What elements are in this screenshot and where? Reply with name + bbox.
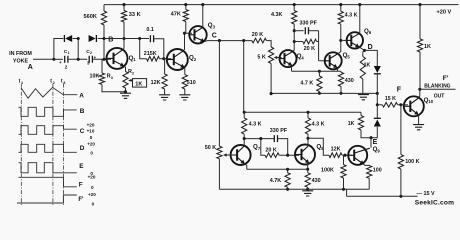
label 20K third <box>265 147 276 153</box>
wire 4.7K1 bottom <box>318 92 320 94</box>
svg-text:12K: 12K <box>151 80 161 86</box>
svg-text:+20: +20 <box>87 142 95 147</box>
resistor 5K pot <box>269 47 274 64</box>
junction right rail <box>418 3 421 6</box>
junction diode mid-tap <box>77 37 80 40</box>
wire branch down to lower stage <box>243 41 245 113</box>
resistor 20K second <box>303 39 317 44</box>
wire cap line to Q1 base <box>93 58 112 60</box>
junction RC2 right <box>286 154 289 157</box>
label +20V <box>437 9 452 15</box>
label Q7 <box>253 143 261 150</box>
label 10K <box>90 74 100 80</box>
wire 430-2 top link <box>307 169 309 172</box>
resistor 50K pot <box>217 146 222 159</box>
wire 4.3K4 top link <box>307 112 309 118</box>
wire 430 bottom <box>340 87 342 94</box>
svg-text:Q7: Q7 <box>253 143 261 150</box>
wire 1K4 top link <box>360 112 362 115</box>
wire to Q2 base <box>160 58 172 60</box>
waveform A sawtooth <box>21 87 77 98</box>
label waveform F <box>79 182 83 189</box>
label Q3 <box>208 22 216 29</box>
label F 0 <box>91 185 94 190</box>
label 430 <box>345 78 354 84</box>
svg-text:15 K: 15 K <box>385 96 396 102</box>
svg-text:YOKE: YOKE <box>13 58 29 64</box>
svg-text:C: C <box>212 33 217 40</box>
junction 4.3K2 rail <box>339 3 342 6</box>
svg-text:20 K: 20 K <box>252 32 263 38</box>
wire 100K1 bottom <box>343 178 345 189</box>
wire 20K3 right to Q8 base <box>279 154 299 156</box>
label 1K below D <box>364 63 371 69</box>
label 20K <box>252 32 263 38</box>
label C <box>212 33 217 40</box>
wire C down to 50K <box>218 41 220 147</box>
label R2 <box>128 69 134 75</box>
svg-text:4.3 K: 4.3 K <box>345 12 358 18</box>
svg-text:— 15 V: — 15 V <box>417 191 435 197</box>
wire Q9 emitter to 100 <box>364 164 370 165</box>
svg-text:D: D <box>368 44 373 51</box>
svg-text:0: 0 <box>92 201 95 206</box>
ground below 510 <box>179 95 190 100</box>
wire Q1 emitter to R2 <box>124 66 125 72</box>
label waveform C <box>80 128 85 135</box>
label 1K fourth <box>348 121 355 127</box>
diode D1 (cathode left) <box>64 35 72 42</box>
ground below 12K <box>159 95 170 100</box>
wire RC2 left vertical <box>261 139 265 156</box>
svg-text:2: 2 <box>132 72 134 76</box>
label B <box>108 36 113 43</box>
label 15K <box>385 96 396 102</box>
wire 430 top link <box>340 70 342 73</box>
transistor Q5 <box>324 52 342 69</box>
svg-text:5 K: 5 K <box>257 55 265 61</box>
wire 4.3K3 bottom <box>243 134 245 138</box>
svg-text:1K: 1K <box>424 44 431 50</box>
transistor Q9 <box>348 146 370 165</box>
label waveform B <box>80 108 85 115</box>
junction Q7 collector node <box>243 137 246 140</box>
junction 4.3K rail <box>293 3 296 6</box>
resistor 4.3K second <box>338 11 343 24</box>
wire rail corner to 560K <box>103 5 105 11</box>
label F node <box>397 87 402 94</box>
wire 15K left link <box>377 104 382 106</box>
wire emitter bus bottom stage <box>247 168 308 170</box>
wire Q2 emitter to 510 <box>184 67 186 74</box>
label SeekIC.com watermark <box>415 199 454 206</box>
junction 430 bottom <box>339 92 342 95</box>
svg-text:330 PF: 330 PF <box>300 20 318 26</box>
wire Q5 collector riser <box>338 24 341 53</box>
svg-text:A: A <box>28 64 33 71</box>
waveform F' pulse <box>17 195 77 203</box>
wire 4.3K4 bottom <box>307 134 309 138</box>
wire D to 1K <box>363 50 365 56</box>
label 560K <box>84 14 97 20</box>
wire 1K to collector node <box>419 52 421 89</box>
label 4.3K <box>271 12 282 18</box>
wire 4.7K2 top link <box>287 169 289 172</box>
transistor Q8 <box>295 145 316 165</box>
node E dot <box>369 136 372 139</box>
wire up to diode branch <box>54 39 63 60</box>
label C2 <box>86 49 92 55</box>
label Q10 <box>424 97 434 104</box>
wire 33K top <box>123 5 125 11</box>
capacitor 330PF bottom <box>274 135 277 142</box>
node A input <box>28 64 33 71</box>
svg-text:2: 2 <box>90 51 92 55</box>
wire cap2 right <box>278 139 288 156</box>
label C 0 <box>90 135 93 140</box>
wire 47K top <box>185 5 187 10</box>
label 430 second <box>312 178 321 184</box>
label R3 <box>107 74 113 80</box>
wire 47K bottom <box>185 22 193 34</box>
label t3 <box>61 79 66 85</box>
label 4.7K <box>300 80 313 86</box>
svg-text:510: 510 <box>187 80 196 86</box>
transistor Q6 <box>346 32 363 48</box>
wire R3 bottom <box>102 85 126 92</box>
svg-text:F: F <box>79 182 83 189</box>
resistor 430 second <box>305 173 310 188</box>
wiper arrow 5K to Q4 base <box>274 56 282 59</box>
wire emitter bus top stage <box>292 70 342 72</box>
svg-text:Q4: Q4 <box>297 53 305 60</box>
label 330 PF <box>300 20 318 26</box>
label 47K <box>171 12 181 18</box>
timing line t2 <box>52 84 54 207</box>
transistor Q4 <box>279 50 297 67</box>
wire between diodes <box>73 38 104 40</box>
waveform F pulse <box>19 177 77 187</box>
label Q6 <box>364 28 372 35</box>
svg-text:F: F <box>397 87 402 94</box>
wire 12K top <box>163 59 166 74</box>
svg-text:4.7K: 4.7K <box>270 178 281 184</box>
svg-text:100: 100 <box>373 167 382 173</box>
wire Q8 emitter down <box>308 163 309 169</box>
label 1K right <box>424 44 431 50</box>
svg-text:0: 0 <box>90 135 93 140</box>
svg-text:Q1: Q1 <box>129 55 137 62</box>
transistor Q3 <box>189 26 207 43</box>
wire RC left vertical <box>140 39 147 59</box>
wiper arrow 50K <box>223 153 230 156</box>
svg-text:+: + <box>59 60 62 65</box>
wire Q8 collector riser <box>307 138 309 146</box>
svg-text:Q2: Q2 <box>189 54 197 61</box>
svg-text:+10: +10 <box>87 129 95 134</box>
junction Q9 base node <box>343 154 346 157</box>
svg-text:430: 430 <box>312 178 321 184</box>
capacitor C1 <box>65 56 68 63</box>
junction Q1 collector node <box>122 37 125 40</box>
label 50K <box>205 145 216 151</box>
wire Q5 emitter down <box>336 68 338 72</box>
resistor 1K fourth <box>358 116 363 131</box>
label C1 <box>64 49 70 55</box>
resistor 1K below D <box>360 57 365 80</box>
wire Q1 collector riser <box>123 39 125 50</box>
label 215K <box>144 51 157 57</box>
wire Q6 base <box>341 39 349 41</box>
svg-text:0.1: 0.1 <box>146 27 154 33</box>
wire diode4 to E <box>371 127 377 138</box>
junction 100K2 bottom <box>399 195 402 198</box>
resistor 4.3K first <box>292 11 297 25</box>
junction Q2 collector node <box>183 32 186 35</box>
label C +10 <box>87 129 95 134</box>
junction 4.3K4 y112 <box>306 111 309 114</box>
label IN FROM YOKE <box>9 51 32 64</box>
svg-text:B: B <box>108 36 113 43</box>
resistor 510 <box>182 75 187 90</box>
wire Q4 emitter down <box>291 65 294 71</box>
label F' 0 <box>92 201 95 206</box>
svg-text:560K: 560K <box>84 14 97 20</box>
svg-text:100K: 100K <box>321 167 334 173</box>
capacitor 330PF top <box>305 27 308 34</box>
svg-text:Q5: Q5 <box>343 52 351 59</box>
wire 430-2 bottom <box>307 187 309 189</box>
junction y112 left <box>243 111 246 114</box>
svg-text:OUT: OUT <box>434 93 445 99</box>
wire 1K bottom to bus <box>362 79 364 93</box>
label waveform E <box>79 163 84 170</box>
wire -15V rail <box>347 195 418 197</box>
wire collector node right <box>244 138 274 140</box>
svg-text:E: E <box>79 163 84 170</box>
junction R2 ground node <box>124 90 127 93</box>
wire B line into RC <box>140 38 149 40</box>
resistor 215K <box>147 56 160 61</box>
diode D4 vertical up <box>374 118 381 126</box>
ground below 430-2 <box>302 191 313 196</box>
label + of C1 <box>59 60 62 65</box>
wire cap1 left <box>294 30 303 32</box>
node D <box>363 49 366 52</box>
junction RC1 cap tap <box>293 29 296 32</box>
svg-text:10K: 10K <box>90 74 100 80</box>
wire D right to diode <box>365 50 378 66</box>
wire cap line C1 <box>54 58 63 60</box>
label 20K second <box>304 46 315 52</box>
wire 4.3K top <box>293 5 295 11</box>
label waveform D <box>80 145 85 152</box>
svg-text:1: 1 <box>21 81 23 85</box>
svg-text:Q10: Q10 <box>424 97 434 104</box>
capacitor 0.1 <box>150 35 153 42</box>
svg-text:B: B <box>80 108 85 115</box>
junction Q3 rail <box>201 3 204 6</box>
wire Q6 emitter to D <box>359 47 364 50</box>
wiper arrow R2 <box>128 79 132 82</box>
box 1K trimmer <box>133 79 147 88</box>
svg-text:50 K: 50 K <box>205 145 216 151</box>
capacitor C2 <box>89 56 92 63</box>
resistor 100K second <box>398 155 403 170</box>
junction F' output node <box>418 88 421 91</box>
transistor Q7 <box>230 145 251 165</box>
resistor 430 first <box>338 72 343 86</box>
wire Q3 collector riser <box>202 5 204 28</box>
wire riser to -15V rail <box>346 189 348 196</box>
junction RC left <box>138 37 141 40</box>
junction RC1 res tap <box>293 40 296 43</box>
waveform B square <box>19 107 77 116</box>
junction C branch <box>242 39 245 42</box>
junction Q8 collector node <box>306 137 309 140</box>
label Q4 <box>297 53 305 60</box>
wire mid-tap vertical <box>77 39 79 60</box>
timing line t3 <box>62 84 64 207</box>
label t2 <box>50 79 55 85</box>
wire Q3 emitter to C line <box>205 40 252 43</box>
svg-text:4.3 K: 4.3 K <box>312 121 325 127</box>
wire 4.7K2 bottom <box>287 187 289 189</box>
transistor Q2 <box>166 49 188 70</box>
junction RC right to base <box>162 57 165 60</box>
wire 20K to 5K <box>266 41 271 47</box>
svg-text:20 K: 20 K <box>304 46 315 52</box>
wire Q4 collector riser <box>293 24 294 51</box>
wire 4.7K1 top link <box>318 71 320 76</box>
junction 4.7K2 top <box>286 168 289 171</box>
label E 0 <box>90 171 93 176</box>
junction input split <box>52 58 55 61</box>
junction 4.7K top <box>318 70 321 73</box>
svg-text:4.7 K: 4.7 K <box>300 80 313 86</box>
label 100 <box>373 167 382 173</box>
svg-text:1K: 1K <box>348 121 355 127</box>
wire 560K to B <box>103 25 105 59</box>
resistor 20K horizontal <box>252 38 267 43</box>
resistor 4.3K fourth <box>305 118 310 134</box>
label 4.3K second <box>345 12 358 18</box>
svg-text:33 K: 33 K <box>129 12 141 18</box>
svg-text:A: A <box>79 93 84 100</box>
label OUT <box>434 93 445 99</box>
wire 100K2 bottom run <box>400 169 402 196</box>
label 5K <box>257 55 265 61</box>
wire 4.3K3 top link <box>243 112 245 118</box>
svg-text:1K: 1K <box>364 63 371 69</box>
label t1 <box>19 79 24 85</box>
svg-text:BLANKING: BLANKING <box>424 83 450 89</box>
diode D2 (cathode right) <box>89 35 97 42</box>
wire right rail down <box>419 5 421 39</box>
svg-text:E: E <box>373 139 378 146</box>
svg-text:SeekIC.com: SeekIC.com <box>415 199 454 206</box>
wire RC right <box>154 39 164 59</box>
label 100K first <box>321 167 334 173</box>
svg-text:215K: 215K <box>144 51 157 57</box>
wire diode3 to bus <box>376 75 378 94</box>
label C +20 <box>87 123 95 128</box>
svg-text:2: 2 <box>65 65 68 70</box>
label Q2 <box>189 54 197 61</box>
svg-text:+20 V: +20 V <box>437 9 452 15</box>
label waveform F' <box>78 197 84 203</box>
svg-text:100 K: 100 K <box>405 159 419 165</box>
junction 15K tap <box>376 103 379 106</box>
junction 4.7K2 bottom <box>286 188 289 191</box>
svg-text:Q3: Q3 <box>208 22 216 29</box>
label D +20 <box>87 142 95 147</box>
label waveform A <box>79 93 84 100</box>
junction 100K1 bottom <box>342 188 345 191</box>
svg-text:47K: 47K <box>171 12 181 18</box>
label F' <box>443 75 449 82</box>
label 12K <box>151 80 161 86</box>
label 510 <box>187 80 196 86</box>
label F' +20 <box>88 192 96 197</box>
label 4.3K third <box>249 121 262 127</box>
junction Q6 rail <box>358 3 361 6</box>
wire Q10 emitter to ground <box>418 115 420 125</box>
label 2 below C1 <box>65 65 68 70</box>
label 3 below C2 <box>87 61 90 66</box>
svg-text:3: 3 <box>63 81 65 85</box>
wire 50K bottom <box>218 159 220 190</box>
svg-text:20 K: 20 K <box>265 147 276 153</box>
label E <box>373 139 378 146</box>
waveform D square <box>19 144 77 152</box>
label D <box>368 44 373 51</box>
node B <box>102 37 105 40</box>
wire y112 bus <box>244 111 361 113</box>
label 4.7K second <box>270 178 281 184</box>
transistor Q1 <box>106 48 128 69</box>
wire Q7 emitter down <box>245 164 247 170</box>
timing line t1 <box>20 84 22 207</box>
wire 100K2 top run <box>400 105 402 155</box>
label 4.3K fourth <box>312 121 325 127</box>
svg-text:3: 3 <box>87 61 90 66</box>
label 100K second <box>405 159 419 165</box>
resistor 20K third <box>265 153 279 158</box>
wire F' output <box>420 88 456 90</box>
node C <box>218 39 221 42</box>
label + of C2 <box>94 55 97 60</box>
resistor 4.3K third <box>242 118 247 134</box>
waveform C square <box>19 126 77 135</box>
wire Q2 collector riser <box>183 33 185 50</box>
wire ground bus top stage <box>271 92 377 94</box>
junction 33K rail <box>122 3 125 6</box>
wire Q6 collector riser <box>359 5 361 34</box>
label Q8 <box>316 143 324 150</box>
wire Q10 base link <box>398 104 408 106</box>
resistor 15K <box>382 103 397 108</box>
label D 0 <box>90 151 93 156</box>
svg-text:4.3K: 4.3K <box>271 12 282 18</box>
label 12K second <box>331 147 341 153</box>
wire Q7 collector riser <box>243 139 245 147</box>
label 330 PF bottom <box>270 128 288 134</box>
junction between caps <box>77 58 80 61</box>
label Q1 <box>129 55 137 62</box>
junction diode bus <box>376 92 379 95</box>
svg-text:D: D <box>80 145 85 152</box>
